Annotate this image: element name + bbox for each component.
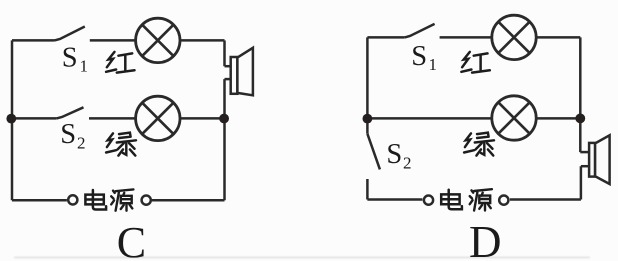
wire: C bottom right segment: [152, 199, 225, 202]
label hong red (C): [106, 52, 134, 73]
wire: C top branch lamp to right: [180, 39, 224, 42]
lamp L1 red (C): [136, 18, 180, 62]
lamp L2 green (C): [136, 96, 180, 140]
svg-text:S: S: [62, 43, 78, 74]
label yuan (C): [111, 189, 133, 210]
wire: C left vertical: [11, 40, 14, 200]
wire: D top branch to lamp: [440, 36, 492, 39]
wire: D bottom left segment: [367, 198, 422, 201]
svg-text:S: S: [411, 41, 427, 72]
svg-text:2: 2: [77, 134, 86, 153]
wire: speaker bottom stub (D): [581, 165, 589, 168]
wire: D right vertical to speaker: [579, 37, 582, 152]
junction dot (D right middle): [575, 114, 585, 124]
wire: D top branch left segment: [367, 36, 404, 39]
speaker (C): [231, 48, 253, 96]
wire: C middle branch lamp to right: [180, 117, 224, 120]
wire: C right vertical upper: [223, 40, 226, 66]
wire: D middle branch lamp to right: [537, 117, 581, 120]
label dian (C): [85, 190, 106, 210]
label dian (D): [441, 190, 462, 210]
svg-text:S: S: [60, 119, 76, 150]
wire: D left vertical upper: [366, 37, 369, 133]
wire: C middle branch left segment: [12, 117, 57, 120]
junction dot (C right middle): [219, 114, 229, 124]
lamp L1 red (D): [492, 15, 536, 59]
wire: D bottom right segment: [510, 198, 581, 201]
battery terminal right (C): [142, 196, 151, 205]
junction dot (D left middle): [363, 114, 373, 124]
wire: D middle branch left segment: [367, 117, 491, 120]
wire: C middle branch to lamp: [89, 117, 135, 120]
wire: speaker top stub (D): [580, 151, 589, 154]
svg-text:S: S: [386, 139, 402, 170]
wire: D top branch lamp to right: [537, 36, 581, 39]
wire: speaker bottom stub (C): [225, 78, 232, 81]
wire: C top branch left segment: [12, 39, 55, 42]
svg-text:C: C: [117, 218, 146, 261]
switch S2 blade (D): [367, 134, 380, 170]
wire: C right vertical lower: [223, 79, 226, 200]
svg-text:D: D: [469, 217, 502, 261]
battery terminal left (D): [424, 196, 433, 205]
wire: D left vertical lower: [366, 179, 369, 200]
lamp L2 green (D): [492, 96, 536, 140]
label yuan (D): [470, 189, 492, 210]
wire: C bottom left segment: [12, 199, 67, 202]
switch S1 blade (D): [405, 24, 435, 38]
svg-text:1: 1: [80, 57, 89, 76]
svg-text:2: 2: [403, 154, 412, 173]
switch S2 blade (C): [57, 107, 84, 118]
battery terminal left (C): [68, 195, 77, 204]
speaker (D): [589, 135, 610, 184]
wire: C top branch to lamp: [90, 39, 136, 42]
wire: D right vertical lower: [580, 166, 583, 199]
battery terminal right (D): [499, 196, 508, 205]
label lv green (C): [106, 133, 136, 156]
junction dot (C left middle): [6, 114, 16, 124]
svg-text:1: 1: [429, 55, 438, 74]
label hong red (D): [461, 52, 489, 73]
wire: speaker top stub (C): [225, 65, 232, 68]
switch S1 blade (C): [55, 27, 85, 41]
label lv green (D): [464, 133, 494, 156]
scan shadow at bottom edge: [14, 257, 590, 259]
